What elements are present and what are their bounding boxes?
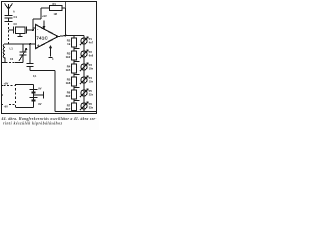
trimmer chain — [83, 36, 85, 45]
svg-text:A: A — [13, 11, 15, 14]
svg-text:L1: L1 — [10, 47, 14, 51]
center tap — [34, 94, 44, 96]
resistor ladder column — [73, 36, 75, 39]
battery loop wires — [16, 85, 34, 108]
wiper rungs — [74, 49, 80, 101]
svg-text:rinti készülék kipróbálásához: rinti készülék kipróbálásához — [3, 122, 63, 126]
svg-text:-9V: -9V — [4, 104, 8, 108]
crystal X1 — [9, 27, 34, 34]
battery sub-circuit — [1, 84, 44, 108]
wire feedback riser — [41, 8, 50, 19]
svg-text:1k8: 1k8 — [66, 81, 71, 85]
svg-text:1M: 1M — [54, 13, 57, 16]
svg-text:741C: 741C — [36, 36, 48, 41]
dashed lead + — [4, 85, 16, 87]
svg-text:+9V: +9V — [42, 14, 47, 18]
svg-text:1k5: 1k5 — [66, 68, 71, 72]
terminal 0 — [1, 94, 3, 96]
terminal + — [1, 85, 3, 87]
svg-text:R1: R1 — [53, 2, 57, 6]
frame border — [2, 2, 97, 114]
battery B1 — [30, 89, 38, 91]
svg-text:+9V: +9V — [4, 81, 9, 85]
svg-text:33n: 33n — [89, 107, 94, 110]
wire R1 to output node — [62, 8, 66, 36]
capacitor C4 — [27, 44, 34, 71]
variable capacitor C2 — [15, 44, 27, 63]
V- supply stub — [49, 48, 53, 58]
inductor L1 — [3, 44, 5, 63]
svg-text:4n7: 4n7 — [89, 42, 94, 45]
wire node A to pin2 — [33, 19, 41, 30]
op-amp U1 — [36, 25, 59, 49]
svg-text:C1: C1 — [14, 15, 18, 19]
svg-text:22n: 22n — [89, 94, 94, 97]
varcap arrow head — [25, 49, 27, 51]
capacitor C1 — [5, 15, 13, 21]
svg-text:15n: 15n — [89, 81, 94, 84]
labels — [4, 2, 94, 111]
capacitor plate bar — [5, 21, 13, 23]
antenna — [5, 4, 13, 16]
svg-text:44. ábra. Hangfrekvenciás oszc: 44. ábra. Hangfrekvenciás oszcillátor a … — [1, 117, 98, 121]
dashed lead - — [9, 104, 16, 106]
ladder R labels — [66, 39, 71, 111]
stub to border — [65, 2, 67, 8]
svg-text:10n: 10n — [89, 68, 94, 71]
wire tank to pin3 — [5, 43, 36, 45]
terminal - — [1, 104, 3, 106]
svg-text:9V: 9V — [38, 86, 41, 90]
resistor R1 — [50, 6, 63, 11]
ladder P labels — [89, 38, 94, 110]
svg-text:2k2: 2k2 — [66, 94, 71, 98]
output node wire — [58, 36, 84, 37]
svg-text:+: + — [37, 43, 40, 48]
junction dots — [4, 29, 66, 63]
V- arrowhead — [50, 46, 52, 48]
svg-text:6n8: 6n8 — [89, 55, 94, 58]
svg-text:9V: 9V — [38, 102, 41, 106]
wire dashed antenna to tank — [8, 23, 10, 44]
svg-text:2k7: 2k7 — [66, 107, 71, 111]
V+ supply stub — [43, 21, 45, 27]
trimmer arrows — [80, 37, 88, 45]
V+ arrowhead — [43, 26, 45, 28]
dashed vertical — [15, 84, 17, 108]
dashed ground bus — [2, 62, 15, 64]
ground rail — [55, 111, 97, 113]
svg-text:1k2: 1k2 — [66, 55, 71, 59]
svg-text:1k: 1k — [67, 42, 71, 46]
battery B2 — [30, 97, 38, 99]
wire bottom rail to ground — [30, 71, 55, 112]
